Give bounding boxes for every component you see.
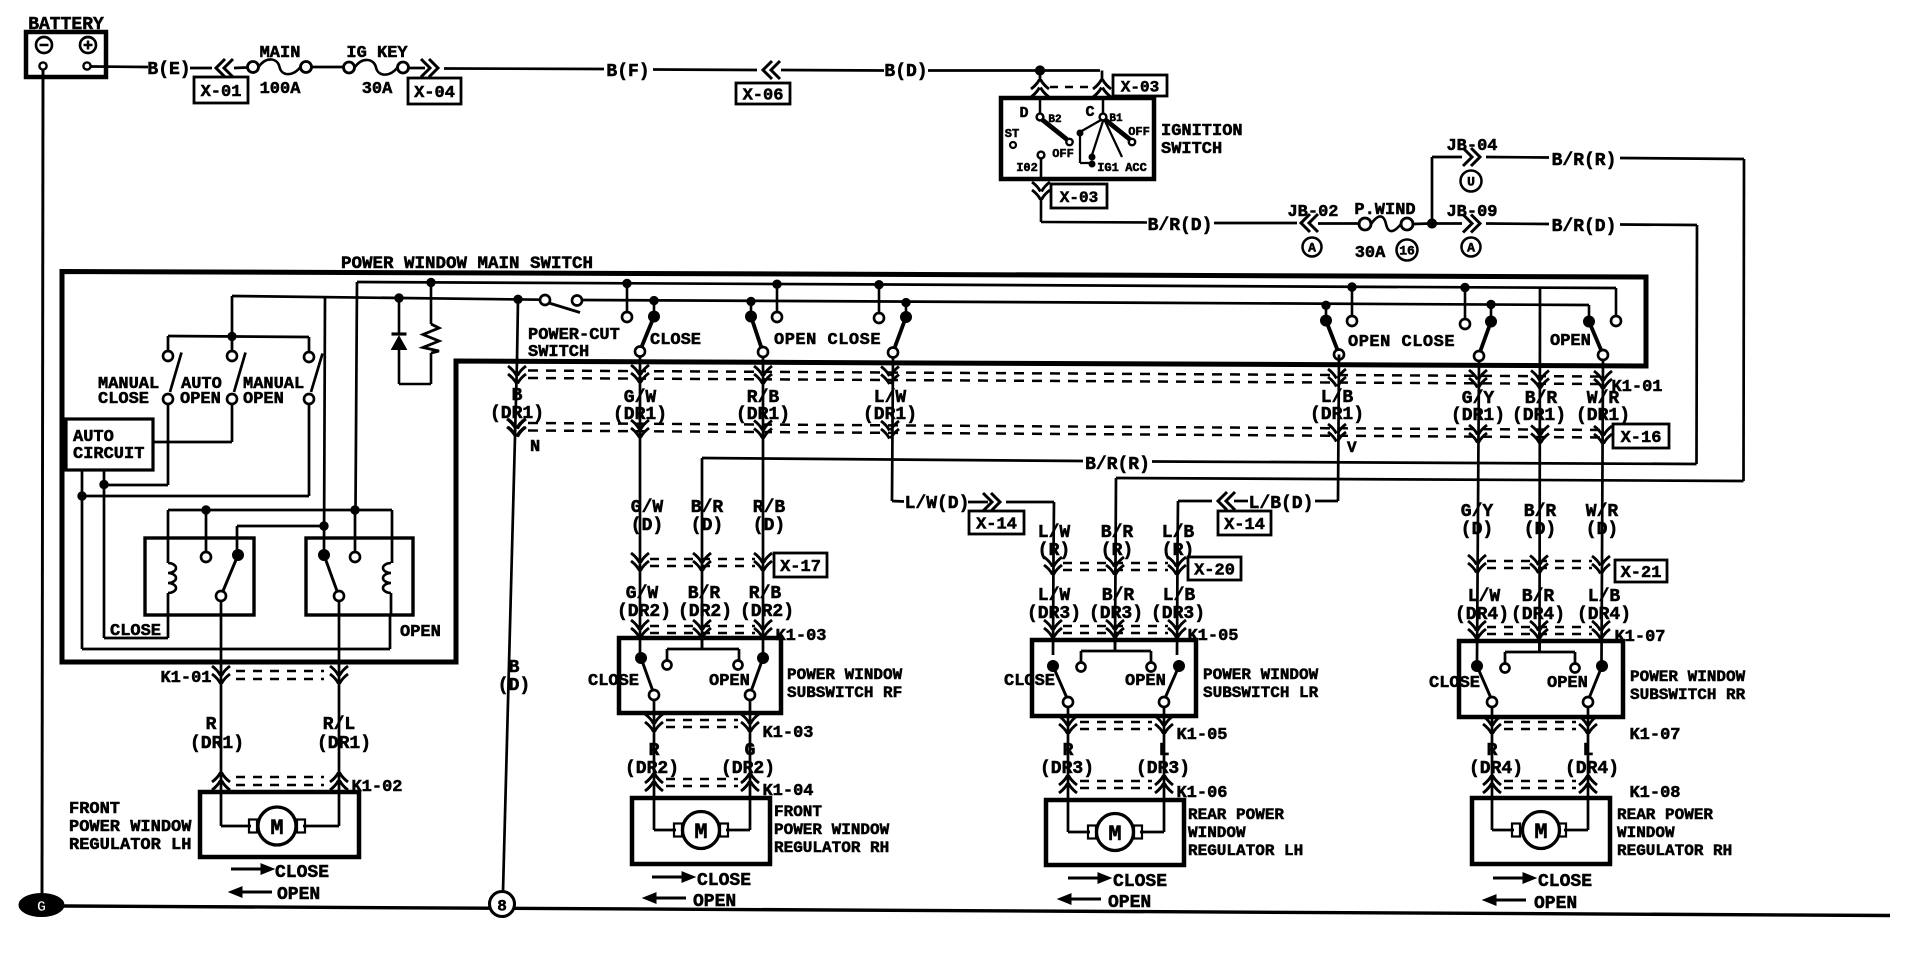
label L/W (DR4) <box>1455 587 1509 625</box>
svg-text:POWER WINDOW MAIN SWITCH: POWER WINDOW MAIN SWITCH <box>341 254 593 274</box>
node 8 <box>490 892 515 917</box>
power window subswitch LR <box>1004 640 1319 716</box>
label L/B (DR1) <box>1310 388 1364 425</box>
svg-text:B/R: B/R <box>1101 523 1134 543</box>
svg-text:N: N <box>530 438 540 457</box>
svg-text:R: R <box>206 715 217 735</box>
svg-text:FRONT: FRONT <box>69 800 120 819</box>
svg-text:L: L <box>1159 741 1170 761</box>
relay CLOSE <box>110 538 254 641</box>
svg-text:(D): (D) <box>631 516 663 536</box>
svg-text:L/B: L/B <box>1162 523 1195 543</box>
label L (DR4) <box>1565 741 1619 779</box>
svg-text:(D): (D) <box>1461 520 1493 540</box>
svg-text:8: 8 <box>497 898 507 916</box>
bus B segment 1 <box>232 296 541 300</box>
svg-text:X-21: X-21 <box>1621 564 1662 583</box>
svg-text:(DR1): (DR1) <box>613 405 667 425</box>
label V <box>1347 439 1357 457</box>
svg-text:L/W(D): L/W(D) <box>905 494 970 514</box>
wire B(F) <box>444 62 757 82</box>
label B/R (DR1) rear <box>1512 389 1566 426</box>
wire R (DR2) column <box>653 700 656 798</box>
svg-text:OPEN: OPEN <box>277 885 320 905</box>
svg-text:CLOSE: CLOSE <box>1538 872 1592 892</box>
svg-text:(D): (D) <box>753 516 785 536</box>
bus B left drop to manual switches <box>231 296 234 336</box>
wire R (DR1) column <box>220 601 223 792</box>
svg-text:REGULATOR LH: REGULATOR LH <box>1188 842 1303 860</box>
svg-text:OPEN: OPEN <box>180 390 221 409</box>
switch OPEN CLOSE (front RH, on main switch) <box>746 280 912 358</box>
svg-text:16: 16 <box>1399 244 1415 259</box>
wire L (DR3) column <box>1163 707 1166 800</box>
connector K1-01 (left) <box>160 666 348 688</box>
svg-text:OFF: OFF <box>1052 147 1074 161</box>
motor M rear RH regulator <box>1472 798 1732 864</box>
switch MANUAL OPEN <box>243 352 323 409</box>
ground G <box>19 894 64 917</box>
svg-text:REGULATOR RH: REGULATOR RH <box>774 839 889 857</box>
svg-text:U: U <box>1467 175 1475 190</box>
connector X-04 <box>408 59 461 104</box>
svg-text:(DR2): (DR2) <box>617 602 671 622</box>
arrow OPEN (RR) <box>1483 894 1577 914</box>
label R/L (DR1) <box>317 715 371 754</box>
svg-text:K1-05: K1-05 <box>1176 726 1227 745</box>
svg-text:100A: 100A <box>260 80 302 99</box>
svg-text:V: V <box>1347 439 1357 457</box>
label L/W (DR3) <box>1027 586 1081 624</box>
label L/B (R) <box>1162 523 1195 561</box>
ignition switch <box>1001 98 1154 179</box>
svg-text:30A: 30A <box>362 80 393 99</box>
switch AUTO OPEN <box>180 351 246 409</box>
svg-text:X-03: X-03 <box>1121 79 1159 97</box>
connector X-06 <box>736 61 790 106</box>
svg-text:OPEN: OPEN <box>1125 672 1166 691</box>
wire AUTO OPEN to auto circuit <box>153 404 232 442</box>
svg-text:B/R: B/R <box>691 498 724 518</box>
svg-text:B/R: B/R <box>1522 587 1555 607</box>
arrow OPEN (LR) <box>1058 893 1151 913</box>
wire B(D) <box>781 62 1100 82</box>
svg-text:JB-09: JB-09 <box>1446 203 1497 222</box>
connector X-03 (bottom) <box>1032 158 1107 208</box>
svg-text:(DR1): (DR1) <box>1576 406 1630 426</box>
connector K1-07 row (upper) <box>1468 621 1666 647</box>
battery ground wire <box>42 70 43 894</box>
svg-text:X-03: X-03 <box>1060 189 1098 207</box>
wire B(E) <box>91 60 212 80</box>
wire between fuses <box>312 66 343 69</box>
svg-text:(D): (D) <box>1586 520 1618 540</box>
junction node above ignition switch <box>1035 66 1044 75</box>
svg-text:B(D): B(D) <box>884 62 927 82</box>
svg-text:CLOSE: CLOSE <box>1113 872 1167 892</box>
power-cut switch <box>528 295 620 362</box>
fuse P.WIND 30A <box>1354 201 1417 263</box>
svg-text:OPEN CLOSE: OPEN CLOSE <box>774 331 881 350</box>
svg-text:WINDOW: WINDOW <box>1188 824 1246 842</box>
label B/R (R) <box>1101 523 1134 561</box>
wire to fuse <box>234 66 247 69</box>
svg-text:R: R <box>649 741 660 761</box>
svg-text:CLOSE: CLOSE <box>697 871 751 891</box>
connector JB-04 <box>1432 137 1498 224</box>
svg-text:OPEN: OPEN <box>693 892 736 912</box>
svg-text:M: M <box>270 816 283 841</box>
svg-text:CLOSE: CLOSE <box>1429 674 1480 693</box>
junction node at P.WIND output <box>1413 219 1437 228</box>
svg-text:(DR2): (DR2) <box>678 602 732 622</box>
bus B segment 2 <box>582 300 1589 305</box>
svg-text:X-17: X-17 <box>780 558 821 577</box>
bus A left drop <box>356 282 358 510</box>
svg-text:X-04: X-04 <box>414 84 455 103</box>
svg-text:G/Y: G/Y <box>1461 502 1494 522</box>
wire B/R rear column <box>1538 288 1541 652</box>
connector JB-09 <box>1435 203 1498 257</box>
wire B/R (R) column <box>1115 478 1116 651</box>
svg-text:X-06: X-06 <box>743 87 784 106</box>
svg-text:R: R <box>1487 741 1498 761</box>
svg-text:IGNITION: IGNITION <box>1161 122 1243 141</box>
switch OPEN (rear RH, on main switch) <box>1550 288 1621 360</box>
wire R (DR3) column <box>1067 707 1070 800</box>
svg-text:OPEN: OPEN <box>1550 332 1591 351</box>
wire L2 horizontal to B/R(R) column <box>1116 478 1744 481</box>
svg-text:OPEN: OPEN <box>243 390 284 409</box>
label G (DR2) <box>721 741 775 779</box>
wire R/L (DR1) column <box>338 601 341 792</box>
svg-text:L/W: L/W <box>1038 586 1071 606</box>
svg-text:B(E): B(E) <box>147 60 190 80</box>
arrow CLOSE (LH) <box>231 863 329 883</box>
svg-text:FRONT: FRONT <box>774 803 822 821</box>
svg-text:CLOSE: CLOSE <box>1004 672 1055 691</box>
svg-text:(DR3): (DR3) <box>1027 604 1081 624</box>
wire B(D) column <box>503 295 522 891</box>
svg-text:B: B <box>509 658 520 678</box>
battery <box>26 15 106 77</box>
ground rail <box>64 906 1890 916</box>
label B/R (DR4) <box>1511 587 1565 625</box>
power window subswitch RF <box>588 638 903 713</box>
connector X-01 <box>194 59 248 103</box>
fuse IG KEY 30A <box>344 44 409 99</box>
svg-text:B: B <box>512 386 523 406</box>
wire L/B(D) crossover <box>1178 492 1339 555</box>
svg-text:OFF: OFF <box>1128 125 1150 139</box>
svg-text:R/L: R/L <box>323 715 355 735</box>
svg-text:(DR1): (DR1) <box>736 405 790 425</box>
svg-text:B/R(D): B/R(D) <box>1552 217 1617 237</box>
svg-text:L/B: L/B <box>1588 587 1621 607</box>
svg-text:REAR POWER: REAR POWER <box>1617 806 1713 824</box>
wire R (DR4) column <box>1491 707 1494 798</box>
switch MANUAL CLOSE <box>98 351 182 409</box>
manual switch header wire <box>168 332 309 352</box>
svg-text:(DR4): (DR4) <box>1565 759 1619 779</box>
connector X-21 row <box>1468 555 1667 583</box>
label B/R (DR3) <box>1089 586 1143 624</box>
wire into ignition B2 <box>1039 71 1042 81</box>
label G/Y (DR1) <box>1451 389 1505 426</box>
label B (DR1) <box>490 386 544 424</box>
svg-text:M: M <box>694 820 707 845</box>
relay feed bus <box>168 506 392 563</box>
connector crowfeet B column <box>507 366 526 437</box>
arrow OPEN (RF) <box>643 892 736 912</box>
wire B/R(D) vertical right <box>1695 225 1698 464</box>
svg-text:X-14: X-14 <box>976 516 1017 535</box>
label L/B (DR3) <box>1151 586 1205 624</box>
wire L1 B/R(R) horizontal <box>702 455 1697 475</box>
svg-text:(DR1): (DR1) <box>490 404 544 424</box>
wire L/B column upper <box>1338 355 1339 500</box>
motor M rear LH regulator <box>1046 800 1303 865</box>
label L/W (R) <box>1038 523 1071 561</box>
svg-text:B/R: B/R <box>1102 586 1135 606</box>
connector K1-05 row (lower) <box>1059 716 1228 745</box>
label R/B (D) <box>753 498 786 536</box>
svg-text:D: D <box>1019 105 1028 122</box>
svg-text:C: C <box>1085 104 1094 121</box>
arrow CLOSE (RF) <box>652 871 751 891</box>
label IGNITION SWITCH <box>1161 122 1243 159</box>
svg-text:CLOSE: CLOSE <box>275 863 329 883</box>
label W/R (D) <box>1586 502 1619 540</box>
label R (DR2) <box>625 741 679 779</box>
switch CLOSE (front LH, on main switch) <box>622 279 701 356</box>
svg-text:CLOSE: CLOSE <box>98 390 149 409</box>
connector K1-08 <box>1483 776 1681 804</box>
svg-text:(D): (D) <box>498 676 530 696</box>
wire after IG KEY <box>409 67 425 70</box>
svg-text:(DR1): (DR1) <box>317 734 371 754</box>
svg-text:SWITCH: SWITCH <box>1161 140 1222 159</box>
connector K1-01 row (main switch outputs) <box>528 365 1663 397</box>
switch OPEN CLOSE (rear LH, on main switch) <box>1321 283 1497 361</box>
wire label B/R(D) <box>1148 216 1297 236</box>
svg-text:W/R: W/R <box>1586 502 1619 522</box>
svg-text:L/W: L/W <box>1468 587 1501 607</box>
connector X-16 row <box>508 419 1669 448</box>
label R/B (DR1) <box>736 388 790 425</box>
connector X-14 (right) <box>1218 511 1271 535</box>
svg-text:G: G <box>37 899 46 916</box>
svg-text:POWER WINDOW: POWER WINDOW <box>1203 666 1319 684</box>
svg-text:SUBSWITCH RR: SUBSWITCH RR <box>1630 686 1746 704</box>
diode <box>392 294 407 384</box>
resistor <box>399 278 439 384</box>
svg-text:REGULATOR LH: REGULATOR LH <box>69 836 191 855</box>
connector X-03 (top) <box>1031 75 1167 97</box>
wire G/Y column <box>1477 361 1479 661</box>
power window main switch enclosure <box>62 272 1646 663</box>
wire L/B (R) lower <box>1176 555 1179 655</box>
svg-text:JB-04: JB-04 <box>1446 137 1497 156</box>
label L/B (DR4) <box>1577 587 1631 625</box>
wire into ignition B1 <box>1101 71 1104 81</box>
svg-text:X-20: X-20 <box>1194 562 1235 581</box>
svg-text:R/B: R/B <box>753 498 786 518</box>
svg-text:K1-01: K1-01 <box>160 669 211 688</box>
connector K1-04 <box>645 774 814 802</box>
svg-text:(DR3): (DR3) <box>1089 604 1143 624</box>
power window subswitch RR <box>1429 641 1746 717</box>
connector X-14 (left) <box>969 511 1024 535</box>
connector X-20 row <box>1044 557 1241 581</box>
label R (DR1) <box>190 715 244 754</box>
svg-text:REAR POWER: REAR POWER <box>1188 806 1284 824</box>
svg-text:SWITCH: SWITCH <box>528 343 589 362</box>
svg-text:(DR4): (DR4) <box>1577 605 1631 625</box>
svg-text:POWER WINDOW: POWER WINDOW <box>69 818 192 837</box>
wire B/R(R) vertical right <box>1742 159 1745 481</box>
svg-text:CLOSE: CLOSE <box>110 622 161 641</box>
label G/W (D) <box>631 498 664 536</box>
wire MANUAL OPEN to auto circuit <box>82 404 309 496</box>
relay common link <box>237 297 328 550</box>
svg-text:L: L <box>1583 741 1594 761</box>
svg-text:CLOSE: CLOSE <box>588 672 639 691</box>
svg-text:IG1: IG1 <box>1097 161 1119 175</box>
svg-text:POWER WINDOW: POWER WINDOW <box>774 821 890 839</box>
connector K1-03 row (lower) <box>645 714 814 743</box>
svg-text:L/W: L/W <box>1038 523 1071 543</box>
svg-text:POWER WINDOW: POWER WINDOW <box>1630 668 1746 686</box>
svg-text:A: A <box>1467 241 1475 256</box>
svg-text:M: M <box>1108 822 1121 847</box>
label B (D) <box>498 658 530 696</box>
svg-text:(DR1): (DR1) <box>1310 405 1364 425</box>
label R (DR3) <box>1040 741 1094 779</box>
svg-text:B/R(D): B/R(D) <box>1148 216 1213 236</box>
wire L (DR4) column <box>1587 707 1590 798</box>
label N <box>530 438 540 457</box>
svg-text:B(F): B(F) <box>606 62 649 82</box>
label R (DR4) <box>1469 741 1523 779</box>
arrow CLOSE (RR) <box>1493 872 1592 892</box>
svg-text:(DR1): (DR1) <box>190 734 244 754</box>
label L (DR3) <box>1136 741 1190 779</box>
svg-text:(DR1): (DR1) <box>863 405 917 425</box>
svg-text:(DR2): (DR2) <box>740 602 794 622</box>
arrow CLOSE (LR) <box>1068 872 1167 892</box>
svg-text:OPEN: OPEN <box>400 623 441 642</box>
svg-text:(DR4): (DR4) <box>1455 605 1509 625</box>
label POWER WINDOW MAIN SWITCH <box>341 254 593 274</box>
svg-text:X-14: X-14 <box>1224 516 1265 535</box>
wire W/R column <box>1602 360 1604 661</box>
svg-text:(DR3): (DR3) <box>1151 604 1205 624</box>
svg-text:OPEN: OPEN <box>1108 893 1151 913</box>
relay OPEN <box>306 538 441 642</box>
label G/Y (D) <box>1461 502 1494 540</box>
label R/B (DR2) <box>740 584 794 622</box>
wire B/R(R) top run <box>1486 151 1744 171</box>
wire B/R (D) column <box>701 458 704 649</box>
svg-text:(D): (D) <box>1524 520 1556 540</box>
svg-text:ACC: ACC <box>1125 161 1147 175</box>
label B/R (D) <box>691 498 724 536</box>
svg-text:POWER WINDOW: POWER WINDOW <box>787 666 903 684</box>
motor M front RH regulator <box>632 798 890 864</box>
wire to P.WIND fuse <box>1318 222 1358 225</box>
svg-text:L/B: L/B <box>1163 586 1196 606</box>
fuse MAIN 100A <box>248 44 312 99</box>
svg-text:OPEN: OPEN <box>709 672 750 691</box>
connector JB-02 <box>1287 203 1338 257</box>
connector K1-03 row (upper) <box>631 620 827 646</box>
svg-text:A: A <box>1308 241 1316 256</box>
svg-text:G/W: G/W <box>631 498 664 518</box>
svg-text:B/R: B/R <box>688 584 721 604</box>
label G/W (DR2) <box>617 584 671 622</box>
svg-text:R/B: R/B <box>749 584 782 604</box>
wire R/B column <box>762 357 765 653</box>
wire L/W(D) crossover <box>892 493 1054 555</box>
svg-text:OPEN CLOSE: OPEN CLOSE <box>1348 333 1455 352</box>
svg-text:(DR4): (DR4) <box>1511 605 1565 625</box>
svg-text:SUBSWITCH RF: SUBSWITCH RF <box>787 684 902 702</box>
svg-text:R: R <box>1063 741 1074 761</box>
bus A <box>357 282 1616 288</box>
connector K1-06 <box>1059 776 1228 804</box>
label B/R (DR2) <box>678 584 732 622</box>
motor M front LH regulator <box>69 792 359 857</box>
wire L/W column upper <box>892 358 893 500</box>
svg-text:OPEN: OPEN <box>1534 894 1577 914</box>
svg-text:OPEN: OPEN <box>1547 674 1588 693</box>
svg-text:I02: I02 <box>1016 161 1038 175</box>
auto circuit bottom wires <box>78 470 390 649</box>
svg-text:G: G <box>745 741 756 761</box>
auto circuit module <box>66 419 153 470</box>
svg-text:B/R(R): B/R(R) <box>1085 455 1150 475</box>
svg-text:K1-08: K1-08 <box>1629 784 1680 803</box>
svg-text:X-01: X-01 <box>201 83 242 102</box>
svg-text:CIRCUIT: CIRCUIT <box>73 445 144 464</box>
svg-text:SUBSWITCH LR: SUBSWITCH LR <box>1203 684 1319 702</box>
connector K1-07 row (lower) <box>1483 716 1681 745</box>
wire L/W (R) lower <box>1052 555 1055 655</box>
svg-text:30A: 30A <box>1355 244 1386 263</box>
svg-text:ST: ST <box>1005 127 1019 141</box>
svg-text:(DR4): (DR4) <box>1469 759 1523 779</box>
wire I02 down to B/R(D) <box>1041 199 1147 223</box>
label B/R (D) rear <box>1524 502 1557 540</box>
svg-text:B/R: B/R <box>1524 502 1557 522</box>
wire G/W column <box>639 357 642 654</box>
svg-text:(DR1): (DR1) <box>1451 406 1505 426</box>
svg-text:X-16: X-16 <box>1621 429 1662 448</box>
connector K1-05 row (upper) <box>1044 620 1239 646</box>
wire G (DR2) column <box>749 700 752 798</box>
label G/W (DR1) <box>613 388 667 425</box>
svg-text:(D): (D) <box>691 516 723 536</box>
svg-text:M: M <box>1534 820 1547 845</box>
svg-text:IG KEY: IG KEY <box>346 44 408 63</box>
svg-text:REGULATOR RH: REGULATOR RH <box>1617 842 1732 860</box>
svg-text:CLOSE: CLOSE <box>650 331 701 350</box>
svg-text:B/R(R): B/R(R) <box>1552 151 1617 171</box>
label W/R (DR1) <box>1576 389 1630 426</box>
arrow OPEN (LH) <box>229 885 320 905</box>
connector X-17 row <box>631 553 827 577</box>
